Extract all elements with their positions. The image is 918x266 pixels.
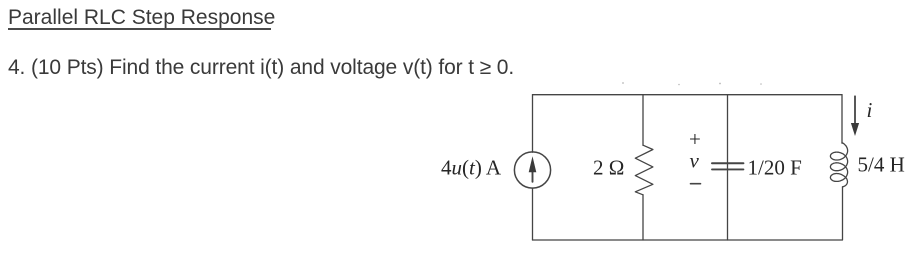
svg-text:v: v — [690, 148, 700, 172]
svg-text:5/4 H: 5/4 H — [858, 153, 905, 177]
svg-text:4u(t) A: 4u(t) A — [441, 156, 502, 180]
svg-text:2 Ω: 2 Ω — [593, 156, 624, 180]
svg-text:1/20 F: 1/20 F — [748, 156, 802, 180]
svg-text:i: i — [867, 98, 873, 122]
